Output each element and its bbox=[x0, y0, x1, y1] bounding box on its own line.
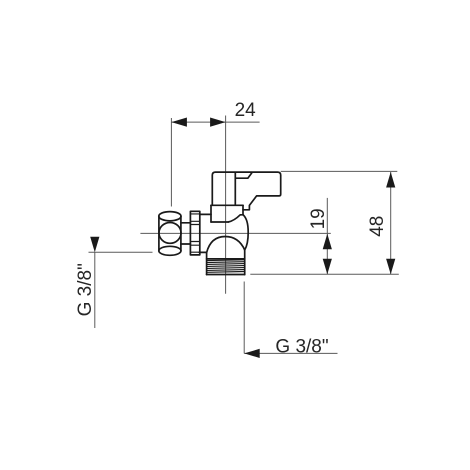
handle step line bbox=[235, 173, 252, 178]
svg-text:24: 24 bbox=[235, 100, 257, 121]
dimension line 19 bbox=[326, 198, 328, 274]
handle hub line bbox=[234, 173, 236, 205]
knob bottom ellipse bbox=[159, 246, 181, 255]
body right shoulder bbox=[244, 250, 246, 275]
thread top edge bbox=[207, 258, 245, 260]
stem housing bottom bbox=[211, 221, 228, 223]
knob right edge bbox=[180, 216, 182, 251]
arrow 24 right bbox=[210, 118, 226, 127]
connector bottom line bbox=[199, 251, 206, 253]
svg-text:G 3/8": G 3/8" bbox=[75, 263, 96, 316]
arrow bottom G3/8 left bbox=[244, 349, 260, 358]
arrow 48 up bbox=[386, 172, 395, 188]
arrow left G3/8 down bbox=[90, 237, 99, 253]
leader vertical left G3/8 bbox=[94, 252, 96, 328]
stem housing top bbox=[211, 204, 243, 206]
leader horizontal left G3/8 bbox=[89, 251, 153, 253]
knob left edge bbox=[158, 216, 160, 251]
body dome arch bbox=[207, 237, 245, 253]
valve handle outline bbox=[212, 172, 280, 210]
ribbed block lines bbox=[190, 214, 199, 252]
extension line top of 48 bbox=[281, 170, 398, 172]
leader vertical bottom G3/8 bbox=[243, 282, 245, 354]
connector top line bbox=[200, 213, 211, 215]
body right ellipse edge bbox=[243, 215, 248, 250]
stem housing right edge bbox=[242, 205, 244, 215]
svg-text:G 3/8": G 3/8" bbox=[275, 336, 328, 357]
extension line left of 24 bbox=[170, 118, 172, 207]
dimension line 24 bbox=[171, 121, 259, 123]
arrow 19 up bbox=[323, 234, 332, 250]
fillet housing to body bbox=[228, 215, 243, 222]
thread lines bbox=[207, 260, 244, 273]
body left shoulder bbox=[206, 253, 208, 275]
thread bottom edge bbox=[207, 274, 245, 276]
neck bottom line bbox=[181, 243, 191, 245]
horizontal centerline bbox=[140, 232, 330, 234]
arrow 24 left bbox=[171, 118, 187, 127]
arrow 19 down bbox=[323, 259, 332, 275]
svg-text:19: 19 bbox=[308, 208, 329, 229]
stem housing left edge bbox=[210, 205, 212, 222]
knob middle circle bbox=[159, 223, 181, 244]
neck top line bbox=[181, 222, 191, 224]
dimension line 48 bbox=[390, 172, 392, 274]
arrow 48 down bbox=[386, 259, 395, 275]
svg-text:48: 48 bbox=[367, 216, 388, 237]
ribbed block outline bbox=[190, 211, 199, 255]
extension line bottom of 48 bbox=[250, 273, 398, 275]
knob top ellipse bbox=[159, 212, 181, 221]
leader horizontal bottom G3/8 bbox=[244, 352, 337, 354]
extension line right of 24 / outlet centerline bbox=[225, 116, 227, 294]
